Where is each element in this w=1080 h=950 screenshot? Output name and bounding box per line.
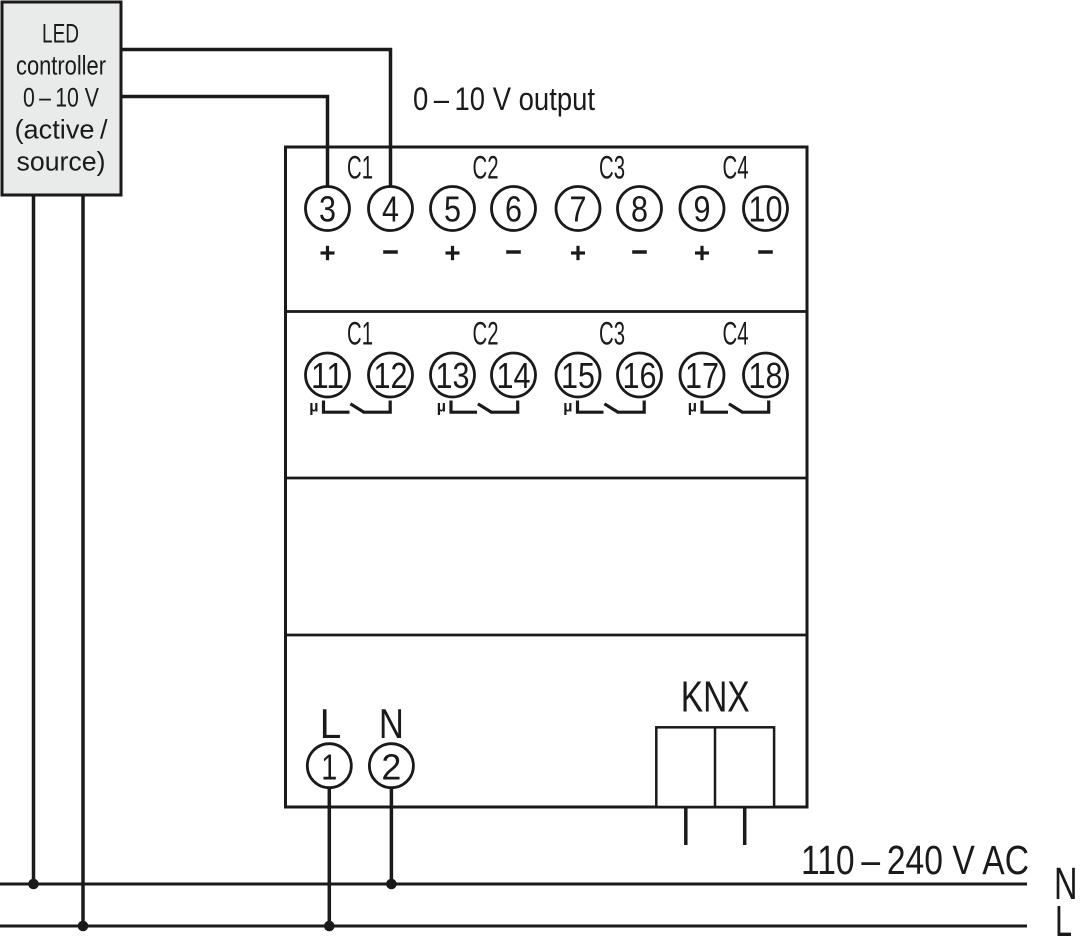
- wire: terminal 1 to L bus: [328, 787, 332, 926]
- svg-text:110 – 240 V AC: 110 – 240 V AC: [801, 837, 1029, 883]
- svg-text:L: L: [1055, 898, 1072, 946]
- svg-text:13: 13: [436, 355, 470, 396]
- wire: controller output plus to terminal 3: [121, 97, 328, 190]
- wire: terminal 2 to N bus: [390, 787, 394, 884]
- terminal 10: [744, 187, 788, 231]
- section divider 2: [286, 477, 808, 480]
- section divider 1: [286, 310, 808, 313]
- terminal 6: [492, 187, 536, 231]
- terminal 17: [680, 353, 724, 397]
- svg-text:controller: controller: [16, 51, 106, 81]
- svg-text:C3: C3: [599, 316, 625, 352]
- svg-text:11: 11: [311, 355, 344, 396]
- svg-text:µ: µ: [437, 399, 446, 416]
- L bus line: [0, 925, 1027, 928]
- wire: KNX bus conductor 1: [684, 808, 688, 845]
- svg-text:0 – 10 V output: 0 – 10 V output: [413, 81, 595, 117]
- terminal 15: [556, 353, 600, 397]
- svg-text:C2: C2: [473, 150, 499, 186]
- relay contact C3 (terminals 15-16): [563, 399, 644, 416]
- svg-text:18: 18: [749, 355, 783, 396]
- wire: KNX bus conductor 2: [743, 808, 747, 845]
- LED controller box: [2, 2, 121, 195]
- svg-text:4: 4: [382, 189, 399, 230]
- terminal 1: [307, 744, 351, 788]
- junction: terminal 2 wire on N bus: [386, 879, 397, 890]
- svg-text:µ: µ: [688, 399, 697, 416]
- svg-text:C2: C2: [473, 316, 499, 352]
- wire: controller to N bus: [32, 196, 36, 885]
- polarity label + (terminal 7): [571, 246, 585, 260]
- polarity label - (terminal 6): [506, 250, 521, 254]
- junction: terminal 1 wire on L bus: [324, 921, 335, 932]
- terminal 9: [680, 187, 724, 231]
- svg-text:15: 15: [561, 355, 595, 396]
- KNX bus connector: [656, 727, 774, 807]
- terminal 8: [618, 187, 662, 231]
- svg-text:(active /: (active /: [15, 115, 108, 145]
- svg-text:KNX: KNX: [681, 673, 750, 722]
- svg-text:C1: C1: [347, 150, 373, 186]
- terminal 4: [369, 187, 413, 231]
- svg-text:10: 10: [749, 189, 783, 230]
- polarity label - (terminal 8): [632, 250, 647, 254]
- svg-text:6: 6: [505, 189, 522, 230]
- svg-text:N: N: [379, 700, 404, 747]
- terminal 14: [492, 353, 536, 397]
- svg-text:7: 7: [570, 189, 587, 230]
- terminal 5: [431, 187, 475, 231]
- section divider 3: [286, 634, 808, 637]
- svg-text:µ: µ: [309, 399, 318, 416]
- junction: controller wire on L bus: [78, 921, 89, 932]
- svg-text:C1: C1: [347, 316, 373, 352]
- polarity label + (terminal 9): [695, 246, 709, 260]
- terminal 11: [306, 353, 350, 397]
- terminal 12: [369, 353, 413, 397]
- terminal 2: [369, 744, 413, 788]
- svg-text:C4: C4: [723, 316, 749, 352]
- svg-text:17: 17: [685, 355, 719, 396]
- terminal 16: [618, 353, 662, 397]
- actuator device outline: [286, 147, 808, 807]
- polarity label + (terminal 3): [321, 246, 335, 260]
- relay contact C1 (terminals 11-12): [309, 399, 390, 416]
- label "LED controller 0-10 V (active/source)": [15, 19, 108, 177]
- svg-text:LED: LED: [42, 19, 79, 49]
- relay contact C4 (terminals 17-18): [688, 399, 769, 416]
- svg-text:0 – 10 V: 0 – 10 V: [23, 83, 99, 113]
- wire: controller to L bus: [81, 196, 85, 927]
- polarity label - (terminal 4): [383, 250, 398, 254]
- svg-text:L: L: [320, 700, 342, 747]
- N bus line: [0, 883, 1027, 886]
- terminal 3: [306, 187, 350, 231]
- svg-text:1: 1: [321, 747, 337, 788]
- polarity label - (terminal 10): [758, 250, 773, 254]
- relay contact C2 (terminals 13-14): [437, 399, 518, 416]
- svg-text:5: 5: [444, 189, 461, 230]
- svg-text:2: 2: [381, 747, 401, 788]
- svg-text:9: 9: [694, 189, 711, 230]
- svg-text:16: 16: [623, 355, 657, 396]
- svg-text:3: 3: [319, 189, 336, 230]
- wire: controller output minus to terminal 4: [121, 50, 391, 190]
- svg-text:µ: µ: [563, 399, 572, 416]
- terminal 7: [556, 187, 600, 231]
- junction: controller wire on N bus: [28, 879, 39, 890]
- svg-text:12: 12: [374, 355, 408, 396]
- svg-text:14: 14: [497, 355, 531, 396]
- svg-text:C3: C3: [599, 150, 625, 186]
- svg-text:C4: C4: [723, 150, 749, 186]
- terminal 18: [744, 353, 788, 397]
- svg-text:8: 8: [631, 189, 648, 230]
- terminal 13: [431, 353, 475, 397]
- polarity label + (terminal 5): [446, 246, 460, 260]
- svg-text:source): source): [17, 147, 106, 177]
